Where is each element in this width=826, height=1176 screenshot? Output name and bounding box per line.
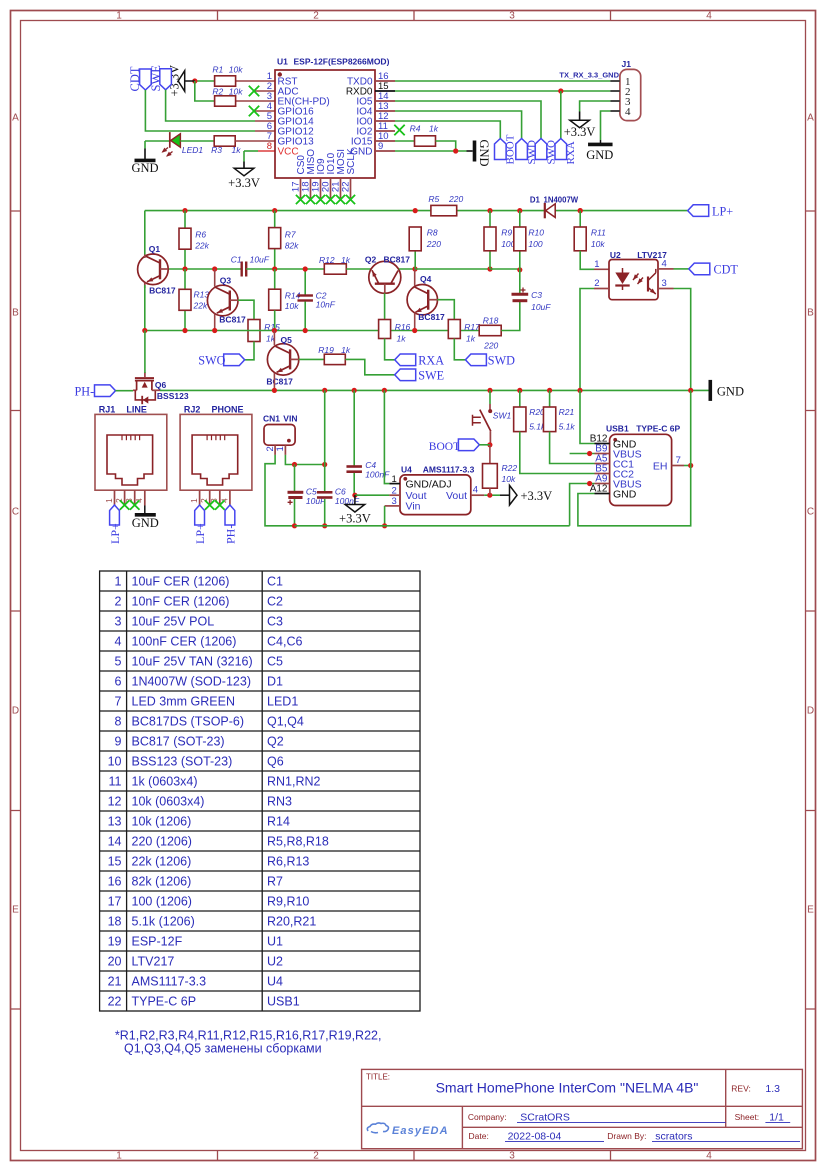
svg-text:R5: R5 bbox=[428, 194, 439, 204]
no-connect X on U1 pin2 ADC bbox=[255, 90, 275, 92]
svg-text:R8: R8 bbox=[427, 227, 438, 237]
junction rail/C4 bbox=[352, 388, 357, 393]
svg-text:Q1: Q1 bbox=[149, 244, 161, 254]
junction +3.3/C4 bbox=[352, 493, 357, 498]
net flag LP+ (RJ2 pin1) bbox=[195, 505, 205, 525]
svg-text:4: 4 bbox=[115, 635, 122, 649]
resistor R7 bbox=[274, 211, 276, 269]
net flag SWD (middle) bbox=[465, 354, 486, 366]
net flag SWO (middle) bbox=[224, 354, 245, 366]
no-connect X on U1 pin 22 bbox=[346, 195, 355, 204]
svg-text:Q3: Q3 bbox=[220, 276, 232, 286]
wire R17 to SWD flag bbox=[454, 339, 465, 360]
svg-text:4: 4 bbox=[706, 11, 712, 22]
svg-text:SCLK: SCLK bbox=[346, 148, 357, 174]
svg-text:+3.3V: +3.3V bbox=[228, 176, 260, 190]
RJ2 pin 1 bbox=[199, 490, 201, 505]
net flag SWE (top left) bbox=[160, 69, 172, 90]
svg-text:22: 22 bbox=[341, 182, 352, 193]
no-connect X on U1 pin4 GPIO16 bbox=[255, 110, 275, 112]
svg-text:Q1,Q4: Q1,Q4 bbox=[267, 715, 304, 729]
resistor R4 bbox=[415, 136, 436, 146]
wire EH to GND loop bbox=[684, 465, 691, 467]
svg-text:LTV217: LTV217 bbox=[132, 955, 175, 969]
junction D1/R11 bbox=[578, 208, 583, 213]
USB1 pin B9 VBUS bbox=[595, 453, 610, 455]
svg-text:R7: R7 bbox=[267, 875, 283, 889]
wire net RXD0 (U1 pin15 to J1 pin2) bbox=[395, 90, 610, 92]
svg-text:5: 5 bbox=[115, 655, 122, 669]
svg-text:U1: U1 bbox=[267, 935, 283, 949]
svg-text:R20,R21: R20,R21 bbox=[267, 915, 316, 929]
ground GND (RJ1 pin4) bbox=[144, 506, 146, 514]
junction rail/Q1-Q6 bbox=[142, 328, 147, 333]
RJ1 pin 1 bbox=[114, 490, 116, 505]
resistor R15 bbox=[248, 320, 260, 342]
resistor R22 bbox=[489, 445, 491, 464]
junction bus/R7 bbox=[272, 208, 277, 213]
svg-text:C: C bbox=[807, 507, 814, 518]
junction gndline/C5 bbox=[292, 462, 297, 467]
resistor R14 bbox=[274, 269, 276, 289]
svg-text:1k (0603x4): 1k (0603x4) bbox=[132, 775, 198, 789]
svg-text:SW1: SW1 bbox=[493, 410, 512, 420]
capacitor C1 bbox=[240, 262, 242, 277]
wire Q5 emitter down to GND rail bbox=[273, 373, 275, 390]
svg-text:22k: 22k bbox=[194, 240, 209, 250]
wire U2 pin3 to GND rail bbox=[674, 289, 691, 391]
U1 pin 19 IO9 bbox=[320, 178, 322, 198]
U4 pin 3 Vin bbox=[385, 505, 400, 507]
svg-text:EH: EH bbox=[653, 460, 668, 472]
svg-text:R9: R9 bbox=[501, 227, 512, 237]
svg-text:10: 10 bbox=[108, 755, 122, 769]
wire net RXA drop bbox=[560, 91, 562, 139]
wire net TXD0 (U1 pin16 to J1 pin1) bbox=[395, 80, 610, 82]
power flag +3.3V (below U1 pin8) bbox=[234, 168, 254, 176]
svg-text:CDT: CDT bbox=[128, 66, 142, 91]
svg-text:3: 3 bbox=[392, 496, 397, 507]
svg-text:AMS1117-3.3: AMS1117-3.3 bbox=[423, 464, 475, 474]
wire row Q4 to R9 bbox=[415, 268, 490, 270]
svg-text:TITLE:: TITLE: bbox=[366, 1072, 390, 1081]
svg-text:LP+: LP+ bbox=[712, 204, 733, 218]
junction rail/Q5 emitter bbox=[272, 388, 277, 393]
svg-text:10nF CER (1206): 10nF CER (1206) bbox=[132, 595, 230, 609]
svg-text:1/1: 1/1 bbox=[769, 1111, 784, 1123]
svg-text:1k: 1k bbox=[341, 255, 351, 265]
svg-text:R6: R6 bbox=[195, 229, 206, 239]
svg-text:Vout: Vout bbox=[446, 490, 467, 502]
junction rail/Q3 bbox=[212, 328, 217, 333]
USB1 pin A9 VBUS bbox=[595, 483, 610, 485]
svg-text:C1: C1 bbox=[267, 575, 283, 589]
resistor R13 bbox=[184, 269, 186, 331]
wire net R2 (+3.3V to R2 to U1 pin3) bbox=[195, 81, 215, 101]
svg-text:13: 13 bbox=[108, 815, 122, 829]
svg-text:R9,R10: R9,R10 bbox=[267, 895, 309, 909]
wire U1 pin9 GND to bar bbox=[395, 150, 467, 152]
connector RJ2 PHONE body bbox=[180, 414, 252, 490]
svg-text:2022-08-04: 2022-08-04 bbox=[508, 1130, 562, 1142]
RJ2 pin 3 bbox=[219, 490, 221, 505]
svg-text:R3: R3 bbox=[211, 145, 222, 155]
svg-text:R21: R21 bbox=[559, 407, 575, 417]
wire Q2 collector to Q4 junction bbox=[399, 268, 415, 270]
svg-text:82k: 82k bbox=[285, 240, 299, 250]
svg-text:U4: U4 bbox=[401, 464, 412, 474]
svg-text:10k: 10k bbox=[285, 301, 299, 311]
wire R3 to U1 pin7 bbox=[235, 140, 275, 142]
U4 pin 4 Vout (right) bbox=[471, 494, 485, 496]
svg-text:LED1: LED1 bbox=[182, 145, 204, 155]
svg-text:1: 1 bbox=[189, 498, 199, 503]
wire Q5 base to R19 bbox=[299, 358, 325, 360]
svg-text:100: 100 bbox=[528, 239, 542, 249]
wire Q3 collector up to row bbox=[214, 269, 216, 287]
U4 pin 2 Vout bbox=[389, 494, 400, 496]
svg-text:Date:: Date: bbox=[469, 1131, 489, 1141]
emitter rail (y=330) bbox=[145, 330, 479, 332]
svg-text:LED1: LED1 bbox=[267, 695, 298, 709]
svg-text:220: 220 bbox=[426, 239, 441, 249]
wire R22 to Vout junction bbox=[489, 488, 491, 495]
wire row R9 to R10/C3 bbox=[490, 268, 520, 270]
wire C4 to U4 pin2 bbox=[355, 494, 390, 496]
svg-text:GND: GND bbox=[131, 161, 158, 175]
svg-text:C4,C6: C4,C6 bbox=[267, 635, 302, 649]
U1 pin 18 MISO bbox=[310, 178, 312, 198]
junction row/R9 bbox=[487, 266, 492, 271]
wire BOOT to junction bbox=[479, 444, 490, 446]
svg-text:Sheet:: Sheet: bbox=[735, 1112, 760, 1122]
wire C1 to R12 row bbox=[246, 268, 324, 270]
junction Vout/R22 bbox=[487, 493, 492, 498]
wire CN1 pin2 to VIN rail bbox=[265, 455, 295, 526]
svg-text:B: B bbox=[12, 308, 19, 319]
svg-text:10uF 25V TAN (3216): 10uF 25V TAN (3216) bbox=[132, 655, 253, 669]
svg-text:+3.3V: +3.3V bbox=[521, 489, 553, 503]
svg-text:A: A bbox=[807, 113, 814, 124]
svg-text:3: 3 bbox=[115, 615, 122, 629]
svg-text:C1: C1 bbox=[231, 254, 242, 264]
wire R15 to SWO flag bbox=[245, 342, 254, 360]
svg-text:2: 2 bbox=[313, 11, 319, 22]
wire net IO0/BOOT (U1 pin12) bbox=[395, 121, 500, 139]
resistor R6 bbox=[184, 211, 186, 269]
RJ1 pin 4 bbox=[144, 490, 146, 505]
wire Q4 base to R17 bbox=[437, 300, 454, 320]
svg-text:R14: R14 bbox=[267, 815, 290, 829]
svg-text:BOOT: BOOT bbox=[429, 441, 460, 453]
svg-text:D1: D1 bbox=[267, 675, 283, 689]
svg-text:16: 16 bbox=[108, 875, 122, 889]
EasyEDA logo bbox=[367, 1123, 388, 1133]
svg-text:BC817: BC817 bbox=[219, 315, 246, 325]
junction rail/U2pin2-B12 bbox=[577, 388, 582, 393]
svg-text:Q6: Q6 bbox=[155, 380, 167, 390]
svg-text:11: 11 bbox=[109, 775, 122, 789]
GND rail (y=390) bbox=[160, 389, 709, 391]
junction row/R6 bbox=[182, 266, 187, 271]
svg-text:U1: U1 bbox=[277, 57, 288, 67]
svg-text:3: 3 bbox=[509, 1151, 515, 1162]
svg-text:15: 15 bbox=[108, 855, 122, 869]
junction row/R10-C3 bbox=[517, 267, 522, 272]
svg-text:1: 1 bbox=[115, 575, 122, 589]
wire CN1 pin1 to GND line bbox=[285, 455, 324, 465]
svg-text:SWD: SWD bbox=[526, 140, 538, 165]
svg-text:BC817: BC817 bbox=[384, 254, 411, 264]
net flag SWE (middle) bbox=[395, 369, 416, 381]
svg-text:AMS1117-3.3: AMS1117-3.3 bbox=[132, 975, 207, 989]
junction B9 bbox=[587, 451, 592, 456]
svg-text:U2: U2 bbox=[267, 955, 283, 969]
wire net SWE to U1 pin5 bbox=[166, 90, 255, 121]
svg-text:SWD: SWD bbox=[488, 354, 515, 368]
wire Q4 emitter down bbox=[414, 313, 416, 331]
junction rail/Q4 bbox=[412, 328, 417, 333]
J1 pin 4 bbox=[610, 110, 620, 112]
no-connect X on U1 pin 17 bbox=[296, 195, 305, 204]
resistor R21 bbox=[549, 390, 551, 407]
svg-text:Q5: Q5 bbox=[281, 335, 293, 345]
svg-text:220 (1206): 220 (1206) bbox=[132, 835, 192, 849]
svg-text:REV:: REV: bbox=[731, 1083, 751, 1093]
RJ2 pin 4 bbox=[229, 490, 231, 505]
svg-text:RN1,RN2: RN1,RN2 bbox=[267, 775, 321, 789]
net flag CDT (top left) bbox=[140, 69, 152, 90]
svg-text:ESP-12F(ESP8266MOD): ESP-12F(ESP8266MOD) bbox=[294, 57, 390, 67]
wire B12 to GND rail bbox=[580, 390, 595, 443]
junction vinrail/C5 bbox=[292, 523, 297, 528]
resistor R11 bbox=[579, 211, 581, 227]
wire J1 pin3 to +3.3V bbox=[580, 101, 611, 112]
resistor R10 bbox=[519, 211, 521, 227]
wire net CDT to U1 pin6 bbox=[145, 90, 255, 131]
wire U4 pin4 to +3.3V flag bbox=[484, 494, 500, 496]
wire Q3 emitter down to rail bbox=[214, 314, 216, 331]
wire Q1 collector to bus bbox=[144, 211, 146, 255]
ground GND (below LED1) bbox=[144, 141, 146, 149]
power flag +3.3V (below J1 pin3) bbox=[570, 120, 590, 128]
svg-text:R1: R1 bbox=[212, 65, 223, 75]
BOM table bbox=[100, 571, 420, 1011]
svg-text:R22: R22 bbox=[502, 463, 518, 473]
RJ1 pin 2 bbox=[124, 490, 126, 505]
junction A9 bbox=[587, 481, 592, 486]
svg-text:ESP-12F: ESP-12F bbox=[132, 935, 183, 949]
wire R14 bottom to rail bbox=[274, 310, 276, 330]
svg-text:10k: 10k bbox=[229, 65, 243, 75]
svg-text:7: 7 bbox=[676, 455, 681, 466]
resistor R20 bbox=[519, 390, 521, 407]
wire U4 pin3 to VIN rail bbox=[384, 506, 386, 526]
svg-text:10k: 10k bbox=[591, 239, 605, 249]
svg-text:R7: R7 bbox=[285, 229, 296, 239]
svg-text:LP+: LP+ bbox=[108, 523, 122, 544]
net flag PH- (RJ2 pin4) bbox=[225, 505, 235, 525]
svg-text:C2: C2 bbox=[267, 595, 283, 609]
junction row/Q4-R8 bbox=[412, 266, 417, 271]
resistor R2 bbox=[215, 96, 236, 106]
U1 pin 17 CS0 bbox=[300, 178, 302, 198]
junction rail/R13 bbox=[182, 328, 187, 333]
J1 pin 2 bbox=[610, 90, 620, 92]
wire R8 bottom to row bbox=[414, 251, 416, 269]
svg-text:220: 220 bbox=[448, 194, 463, 204]
svg-text:LINE: LINE bbox=[126, 404, 147, 414]
J1 pin 1 bbox=[610, 80, 620, 82]
no-connect X RJ1 pin2 bbox=[120, 500, 130, 510]
junction rail/SW1 bbox=[487, 388, 492, 393]
svg-text:LP+: LP+ bbox=[193, 523, 207, 544]
svg-text:GND: GND bbox=[132, 516, 159, 530]
svg-text:4: 4 bbox=[706, 1151, 712, 1162]
svg-text:20: 20 bbox=[108, 955, 122, 969]
RJ1 pin 3 bbox=[134, 490, 136, 505]
junction rail/U2pin3-EH bbox=[688, 388, 693, 393]
svg-text:C: C bbox=[12, 507, 19, 518]
power flag +3.3V (below C4) bbox=[354, 495, 356, 504]
net flag BOOT (below J1) bbox=[495, 139, 507, 160]
svg-text:SCratORS: SCratORS bbox=[520, 1111, 570, 1123]
svg-text:BC817 (SOT-23): BC817 (SOT-23) bbox=[132, 735, 225, 749]
wire A9 VBUS to VIN rail bbox=[570, 484, 595, 526]
svg-text:U4: U4 bbox=[267, 975, 283, 989]
svg-text:10uF: 10uF bbox=[531, 302, 551, 312]
svg-text:R4: R4 bbox=[410, 124, 421, 134]
net flag RXA (middle) bbox=[395, 354, 416, 366]
USB1 pin A5 CC1 bbox=[595, 463, 610, 465]
svg-text:BC817DS (TSOP-6): BC817DS (TSOP-6) bbox=[132, 715, 245, 729]
svg-text:22k (1206): 22k (1206) bbox=[132, 855, 192, 869]
transistor Q6 BSS123 mosfet bbox=[133, 389, 137, 391]
wire GND rail drop to U4 pin1 bbox=[384, 390, 389, 483]
junction row/C2 bbox=[303, 266, 308, 271]
svg-text:12: 12 bbox=[108, 795, 122, 809]
U1 pin 22 SCLK bbox=[350, 178, 352, 198]
svg-text:D: D bbox=[807, 706, 814, 717]
wire +LP bus (top horizontal) bbox=[145, 210, 431, 212]
ground GND (right of R4, vertical bar) bbox=[473, 141, 477, 162]
svg-text:Q4: Q4 bbox=[420, 274, 432, 284]
svg-text:LED 3mm GREEN: LED 3mm GREEN bbox=[132, 695, 236, 709]
junction vinrail/U4pin3 bbox=[382, 523, 387, 528]
U1 pin 20 IO10 bbox=[330, 178, 332, 198]
svg-text:RJ2: RJ2 bbox=[184, 404, 201, 414]
wire Q4 collector up bbox=[414, 269, 416, 286]
svg-text:R10: R10 bbox=[528, 227, 544, 237]
svg-text:GND/ADJ: GND/ADJ bbox=[406, 478, 452, 490]
J1 pin 3 bbox=[610, 100, 620, 102]
svg-text:17: 17 bbox=[108, 895, 122, 909]
svg-text:GND: GND bbox=[613, 489, 637, 501]
svg-text:Smart HomePhone InterCom "NELM: Smart HomePhone InterCom "NELMA 4B" bbox=[436, 1080, 699, 1096]
svg-text:scrators: scrators bbox=[655, 1130, 692, 1142]
svg-text:2: 2 bbox=[392, 485, 397, 496]
wire U2 pin4 to CDT flag bbox=[674, 268, 689, 270]
junction rail/R20 bbox=[517, 388, 522, 393]
svg-text:Q1,Q3,Q4,Q5 заменены сборками: Q1,Q3,Q4,Q5 заменены сборками bbox=[124, 1042, 322, 1056]
svg-text:2: 2 bbox=[594, 278, 599, 289]
svg-text:4: 4 bbox=[662, 258, 667, 269]
no-connect X RJ2 pin3 bbox=[215, 500, 225, 510]
wire GND loop (EH/A12) bbox=[578, 390, 691, 525]
junction vinrail/C6 bbox=[322, 523, 327, 528]
svg-text:A: A bbox=[12, 113, 19, 124]
net flag LP+ (RJ1 pin1) bbox=[110, 505, 120, 525]
wire Q6 drain up to rail bbox=[144, 331, 146, 374]
junction bus/R9 bbox=[487, 208, 492, 213]
wire net IO4/SWD (U1 pin13) bbox=[395, 111, 522, 139]
svg-text:Q6: Q6 bbox=[267, 755, 284, 769]
svg-text:RXA: RXA bbox=[418, 354, 444, 368]
svg-text:18: 18 bbox=[108, 915, 122, 929]
svg-text:7: 7 bbox=[115, 695, 122, 709]
resistor R1 bbox=[215, 76, 236, 86]
resistor R17 bbox=[448, 320, 460, 339]
capacitor C6 bbox=[317, 491, 333, 494]
svg-text:19: 19 bbox=[108, 935, 122, 949]
CN1 pin 1 bbox=[284, 445, 286, 455]
power flag +3.3V (right of U4) bbox=[500, 494, 510, 496]
svg-text:TX_RX_3.3_GND: TX_RX_3.3_GND bbox=[559, 71, 619, 80]
wire R21 to USB CC1 bbox=[550, 432, 595, 464]
wire R18 to C3 bottom bbox=[501, 302, 520, 331]
wire Q5 collector up to rail bbox=[273, 331, 275, 346]
wire GND rail drop to C5/C6 line bbox=[324, 390, 326, 464]
connector RJ1 LINE body bbox=[95, 414, 167, 490]
junction +3.3V/R1/R2 bbox=[192, 78, 197, 83]
no-connect X on U1 pin 20 bbox=[326, 195, 335, 204]
junction gndline/C6 bbox=[322, 462, 327, 467]
USB1 pin B12 GND bbox=[595, 443, 610, 445]
no-connect X RJ2 pin2 bbox=[205, 500, 215, 510]
junction rail/C-GND drop 1 bbox=[322, 388, 327, 393]
svg-text:BC817: BC817 bbox=[266, 377, 293, 387]
junction bus/R10 bbox=[517, 208, 522, 213]
svg-text:J1: J1 bbox=[622, 59, 632, 69]
svg-text:1k: 1k bbox=[466, 334, 476, 344]
switch SW1 bbox=[489, 390, 491, 404]
svg-text:R18: R18 bbox=[483, 315, 499, 325]
svg-text:100nF: 100nF bbox=[365, 470, 390, 480]
title block frame bbox=[362, 1069, 803, 1148]
svg-text:B: B bbox=[807, 308, 814, 319]
svg-text:CN1: CN1 bbox=[263, 413, 280, 423]
svg-text:Company:: Company: bbox=[468, 1112, 507, 1122]
wire R19 to SWE flag bbox=[345, 359, 394, 374]
U2 internal phototransistor bbox=[647, 277, 649, 292]
svg-text:C5: C5 bbox=[267, 655, 283, 669]
svg-text:6: 6 bbox=[115, 675, 122, 689]
svg-text:1: 1 bbox=[275, 446, 286, 451]
junction bus/R8 bbox=[413, 208, 418, 213]
svg-text:10uF 25V POL: 10uF 25V POL bbox=[132, 615, 215, 629]
svg-text:220: 220 bbox=[483, 341, 498, 351]
svg-text:Q2: Q2 bbox=[365, 254, 377, 264]
wire PH- to Q6 bbox=[116, 390, 134, 392]
svg-text:R19: R19 bbox=[318, 345, 334, 355]
svg-text:10k (1206): 10k (1206) bbox=[132, 815, 192, 829]
svg-text:GND: GND bbox=[717, 384, 744, 398]
svg-text:Q2: Q2 bbox=[267, 735, 284, 749]
svg-text:RXA: RXA bbox=[565, 141, 577, 164]
svg-text:3: 3 bbox=[662, 278, 667, 289]
svg-text:10k (0603x4): 10k (0603x4) bbox=[132, 795, 205, 809]
svg-text:E: E bbox=[807, 905, 814, 916]
